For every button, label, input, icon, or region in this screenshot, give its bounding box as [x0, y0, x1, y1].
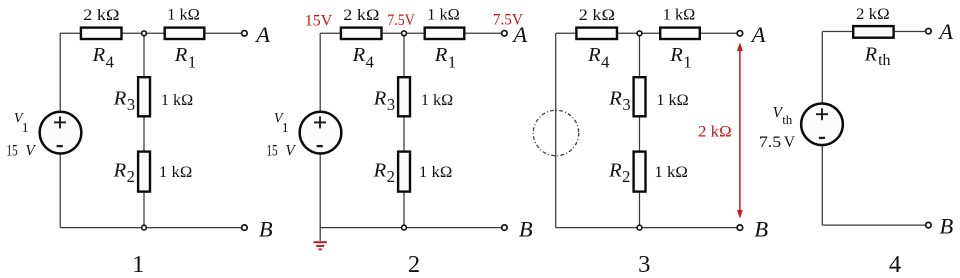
- resistor R4 (circuit 2): [341, 28, 382, 39]
- wire: circuit 3 bottom horizontal net: [556, 227, 737, 229]
- svg-text:7.5: 7.5: [759, 134, 782, 151]
- resistor R1 (circuit 3): [660, 28, 700, 39]
- node: top junction R4/R1/R3 (circuit 3): [637, 31, 642, 36]
- red resistance measurement arrow A-B (circuit 3): [737, 43, 742, 218]
- svg-text:V: V: [25, 142, 36, 159]
- terminal A (circuit 1): [242, 31, 248, 37]
- svg-text:7.5V: 7.5V: [493, 10, 523, 29]
- svg-text:1 kΩ: 1 kΩ: [663, 7, 696, 24]
- terminal A (circuit 3): [737, 31, 743, 37]
- wire: circuit 1 left vertical branch: [59, 33, 61, 227]
- wire: circuit 4 top horizontal (Vth to Rth to A): [822, 31, 925, 33]
- svg-text:A: A: [750, 22, 766, 47]
- resistor R1 (circuit 2): [425, 28, 465, 39]
- terminal B (circuit 3): [737, 225, 743, 231]
- svg-text:A: A: [937, 19, 953, 44]
- svg-text:1 kΩ: 1 kΩ: [421, 92, 453, 109]
- voltage source Vth (circuit 4): [801, 103, 843, 145]
- resistor R3 (circuit 2): [398, 77, 410, 116]
- svg-text:2 kΩ: 2 kΩ: [83, 7, 119, 24]
- plus sign inside V1 (circuit 2): [314, 121, 326, 123]
- svg-text:1 kΩ: 1 kΩ: [161, 92, 193, 109]
- svg-text:15V: 15V: [305, 11, 333, 30]
- minus sign inside V1 (circuit 1): [57, 145, 63, 147]
- svg-text:1: 1: [22, 120, 29, 135]
- svg-text:1 kΩ: 1 kΩ: [427, 7, 460, 24]
- wire: circuit 1 top horizontal net: [60, 32, 241, 34]
- wire: circuit 1 bottom horizontal net: [60, 227, 241, 229]
- minus sign inside Vth (circuit 4): [819, 137, 825, 139]
- svg-text:2 kΩ: 2 kΩ: [856, 6, 890, 23]
- svg-text:1 kΩ: 1 kΩ: [419, 164, 452, 181]
- wire: circuit 4 left vertical branch: [821, 32, 823, 226]
- terminal B (circuit 1): [242, 225, 248, 231]
- terminal B (circuit 2): [502, 225, 508, 231]
- plus sign inside Vth (circuit 4): [816, 113, 828, 115]
- terminal B (circuit 4): [926, 222, 932, 228]
- svg-text:V: V: [784, 134, 795, 151]
- svg-text:1: 1: [132, 251, 144, 278]
- resistor R2 (circuit 1): [138, 152, 150, 192]
- plus sign inside V1 (circuit 1): [54, 121, 66, 123]
- wire: circuit 3 middle vertical branch: [639, 33, 641, 227]
- node: top junction R4/R1/R3 (circuit 2): [402, 31, 407, 36]
- minus sign inside V1 (circuit 2): [317, 145, 323, 147]
- wire: circuit 3 left vertical branch: [555, 33, 557, 227]
- ground symbol (red, circuit 2): [314, 242, 327, 249]
- node: top junction R4/R1/R3 (circuit 1): [142, 31, 147, 36]
- resistor R3 (circuit 1): [138, 77, 150, 116]
- resistor R4 (circuit 3): [576, 28, 617, 39]
- svg-text:7.5V: 7.5V: [387, 10, 415, 29]
- svg-text:15: 15: [266, 142, 278, 159]
- terminal A (circuit 4): [926, 28, 932, 34]
- terminal A (circuit 2): [502, 31, 508, 37]
- svg-text:1 kΩ: 1 kΩ: [656, 92, 688, 109]
- node: bottom junction on return rail (circuit 3): [637, 225, 642, 230]
- svg-text:15: 15: [6, 142, 18, 159]
- wire: circuit 3 top horizontal net: [556, 32, 737, 34]
- svg-text:1 kΩ: 1 kΩ: [654, 164, 687, 181]
- svg-text:2: 2: [408, 251, 420, 278]
- voltage source V1 (circuit 1): [40, 112, 82, 154]
- svg-text:3: 3: [638, 251, 650, 278]
- resistor R2 (circuit 2): [398, 152, 410, 192]
- wire: circuit 4 bottom horizontal to B: [822, 224, 925, 226]
- wire: circuit 1 middle vertical branch: [143, 33, 145, 227]
- removed source placeholder: dashed circle (circuit 3): [533, 110, 579, 156]
- resistor R3 (circuit 3): [634, 77, 646, 116]
- svg-text:4: 4: [889, 251, 901, 278]
- resistor R1 (circuit 1): [165, 28, 205, 39]
- svg-text:A: A: [254, 22, 270, 47]
- wire: circuit 2 left vertical branch: [319, 33, 321, 227]
- wire: circuit 2 bottom horizontal net: [320, 227, 501, 229]
- resistor R2 (circuit 3): [634, 152, 646, 192]
- svg-text:2 kΩ: 2 kΩ: [343, 7, 379, 24]
- svg-text:B: B: [940, 214, 954, 239]
- svg-text:B: B: [754, 216, 768, 241]
- svg-text:1 kΩ: 1 kΩ: [167, 7, 200, 24]
- node: bottom junction on return rail (circuit 1): [142, 225, 147, 230]
- wire: circuit 2 middle vertical branch: [403, 33, 405, 227]
- svg-text:2 kΩ: 2 kΩ: [579, 7, 615, 24]
- svg-text:1: 1: [282, 120, 289, 135]
- resistor R4 (circuit 1): [81, 28, 122, 39]
- node: bottom junction on return rail (circuit 2): [402, 225, 407, 230]
- resistor Rth (circuit 4): [853, 26, 893, 38]
- svg-text:1 kΩ: 1 kΩ: [159, 164, 192, 181]
- svg-text:B: B: [519, 216, 533, 241]
- svg-text:B: B: [259, 216, 273, 241]
- wire: circuit 2 top horizontal net: [320, 32, 501, 34]
- voltage source V1 (circuit 2): [300, 112, 342, 154]
- svg-text:th: th: [782, 112, 793, 127]
- wire: ground stub below bottom-left corner (circuit 2): [319, 228, 321, 241]
- svg-text:V: V: [285, 142, 296, 159]
- svg-text:2 kΩ: 2 kΩ: [698, 121, 732, 140]
